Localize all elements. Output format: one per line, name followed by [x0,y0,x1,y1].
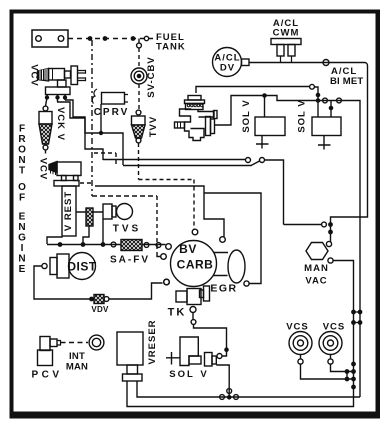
svg-text:INT: INT [69,351,85,362]
svg-text:VCS: VCS [286,322,309,333]
svg-text:O: O [18,145,26,156]
svg-text:CARB: CARB [177,258,214,272]
svg-text:SV-CBV: SV-CBV [146,56,157,97]
svg-text:I: I [21,243,24,254]
svg-text:V: V [200,369,207,380]
svg-text:N: N [18,222,25,233]
svg-text:G: G [18,233,26,244]
svg-text:MAN: MAN [66,362,88,373]
svg-text:E: E [19,264,26,275]
svg-text:TK: TK [168,307,187,319]
svg-text:VCV: VCV [37,158,48,181]
svg-text:E: E [19,212,26,223]
svg-text:TVV: TVV [148,116,159,137]
svg-text:F: F [19,193,25,204]
svg-text:V REST: V REST [63,191,74,231]
svg-text:TVS: TVS [113,224,141,235]
svg-text:VCK V: VCK V [55,107,66,141]
svg-text:SOL V: SOL V [297,99,308,132]
svg-text:BI MET: BI MET [330,76,363,87]
svg-text:DIST: DIST [67,260,97,274]
svg-text:CWM: CWM [273,28,300,39]
svg-text:SA-FV: SA-FV [110,255,150,266]
svg-text:T: T [19,166,25,177]
svg-text:DV: DV [220,63,235,74]
svg-text:N: N [18,254,25,265]
svg-text:SOL: SOL [169,369,195,380]
svg-text:VDV: VDV [91,305,109,314]
svg-text:CPRV: CPRV [94,107,130,118]
svg-text:O: O [18,182,26,193]
svg-text:VCS: VCS [323,322,346,333]
svg-text:F: F [19,124,25,135]
svg-text:TANK: TANK [156,42,186,53]
svg-text:PCV: PCV [31,370,62,381]
svg-text:MAN: MAN [304,263,329,274]
svg-text:EGR: EGR [210,283,237,295]
svg-text:SOL V: SOL V [241,99,252,132]
svg-text:VCV: VCV [28,64,39,87]
svg-text:R: R [18,134,26,145]
svg-text:VRESER: VRESER [147,319,158,364]
svg-text:VAC: VAC [305,276,327,287]
svg-text:N: N [18,155,25,166]
svg-text:BV: BV [179,242,197,256]
